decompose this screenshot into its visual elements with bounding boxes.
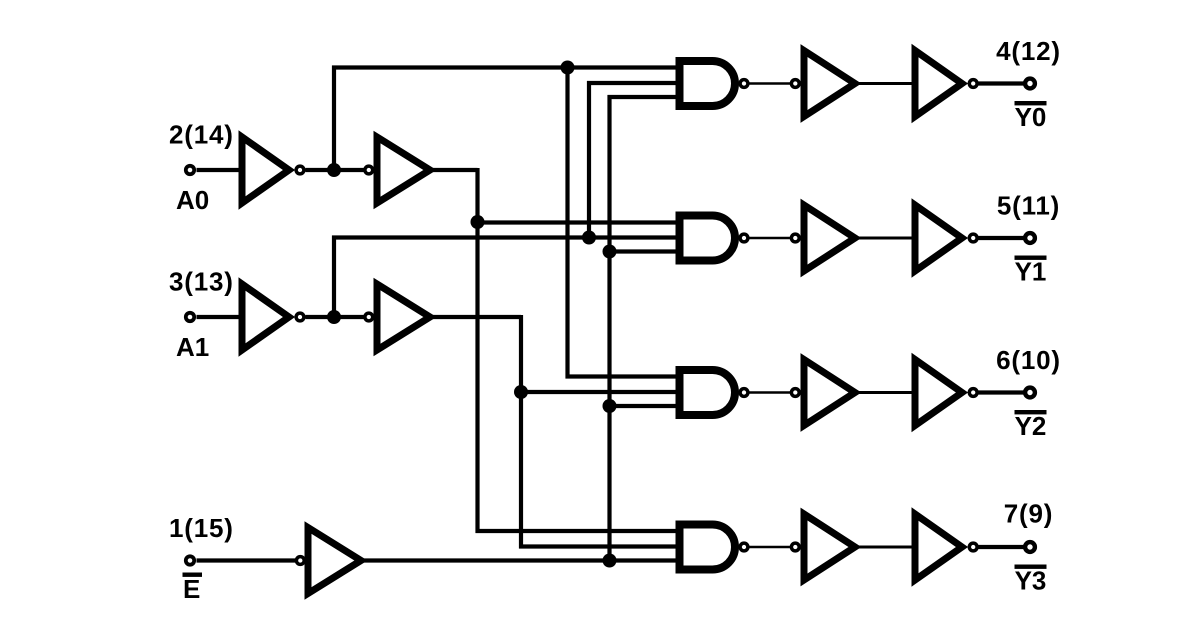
wire /A1 branch vertical — [587, 81, 591, 238]
svg-text:Y2: Y2 — [1015, 411, 1047, 441]
wire NAND2 out — [750, 237, 791, 240]
wire Y2 mid — [858, 391, 912, 394]
inverter U1B — [242, 284, 304, 350]
wire /A1 run to NAND2 — [332, 235, 682, 239]
net label Y1 overline — [1015, 256, 1047, 287]
nand U4C — [680, 370, 748, 415]
output terminal pin 4 — [1025, 79, 1035, 89]
wire E input — [197, 558, 297, 562]
inverter U5A — [791, 51, 855, 117]
inverter U6D — [915, 514, 977, 580]
node E junction at NAND4 — [603, 554, 617, 568]
buffer U3 enable — [296, 528, 361, 594]
svg-text:1(15): 1(15) — [169, 513, 234, 543]
wire A0 to NAND2 — [478, 220, 683, 224]
node /A0 branch junction — [561, 61, 575, 75]
wire A1 to NAND3 — [521, 390, 682, 394]
inverter U1A — [242, 137, 304, 203]
input terminal pin 2 — [186, 166, 194, 174]
inverter U6B — [915, 205, 977, 271]
wire /A0 to NAND3 — [566, 374, 683, 378]
wire E vertical riser — [607, 95, 611, 561]
node A0 junction at NAND2 — [471, 215, 485, 229]
wire E to NAND3 — [610, 404, 683, 408]
svg-text:A0: A0 — [176, 185, 209, 215]
buffer U2A — [365, 137, 430, 203]
net label E overline — [183, 573, 203, 605]
wire E to NAND2 — [610, 249, 683, 253]
wire /A1 stub — [306, 315, 365, 319]
wire Y2 out — [979, 390, 1024, 394]
wire A0 vertical drop — [475, 168, 479, 533]
inverter U6C — [915, 360, 977, 426]
input terminal pin 1 — [186, 556, 194, 564]
net label Y0 overline — [1015, 101, 1047, 132]
wire A1 vertical drop — [519, 315, 523, 549]
wire E to NAND1 — [608, 95, 683, 99]
inverter U6A — [915, 51, 977, 117]
wire /A1 to NAND1 — [587, 81, 682, 85]
wire A1 true horizontal — [433, 315, 521, 319]
output terminal pin 5 — [1025, 233, 1035, 243]
wire NAND1 out — [750, 82, 791, 85]
wire A0 to NAND4 — [476, 529, 683, 533]
inverter U5B — [791, 205, 855, 271]
wire A1 to NAND4 — [519, 544, 682, 548]
wire E main run — [364, 558, 682, 562]
node /A1 junction — [327, 310, 341, 324]
wire Y0 out — [979, 81, 1024, 85]
net label Y2 overline — [1015, 410, 1047, 441]
wire Y3 mid — [858, 546, 912, 549]
wire Y1 mid — [858, 237, 912, 240]
wire Y0 mid — [858, 82, 912, 85]
inverter U5D — [791, 514, 855, 580]
wire NAND4 out — [750, 546, 791, 549]
wire /A0 vertical riser — [332, 66, 336, 171]
node E junction at NAND2 — [603, 245, 617, 259]
input terminal pin 3 — [186, 313, 194, 321]
nand U4B — [680, 216, 748, 261]
node E junction at NAND3 — [603, 399, 617, 413]
svg-text:5(11): 5(11) — [997, 191, 1060, 221]
wire Y1 out — [979, 236, 1024, 240]
wire A0 input — [197, 168, 244, 172]
svg-text:Y3: Y3 — [1015, 566, 1047, 596]
nand U4D — [680, 525, 748, 570]
svg-text:2(14): 2(14) — [169, 120, 234, 150]
nand U4A — [680, 61, 748, 106]
wire Y3 out — [979, 545, 1024, 549]
svg-text:E: E — [183, 574, 200, 604]
svg-text:4(12): 4(12) — [996, 36, 1061, 66]
wire A1 input — [197, 315, 244, 319]
output terminal pin 6 — [1025, 388, 1035, 398]
wire /A0 stub — [306, 168, 365, 172]
svg-text:7(9): 7(9) — [1004, 499, 1053, 529]
wire /A0 top run — [332, 65, 682, 69]
svg-text:A1: A1 — [176, 332, 209, 362]
output terminal pin 7 — [1025, 542, 1035, 552]
node A1 junction at NAND3 — [514, 385, 528, 399]
node /A1 branch junction — [582, 231, 596, 245]
svg-text:3(13): 3(13) — [169, 267, 234, 297]
svg-text:Y1: Y1 — [1015, 257, 1047, 287]
wire /A1 vertical riser — [332, 236, 336, 318]
buffer U2B — [365, 284, 430, 350]
node /A0 junction — [327, 163, 341, 177]
inverter U5C — [791, 360, 855, 426]
wire A0 true horizontal — [433, 168, 478, 172]
wire /A0 branch vertical — [565, 68, 569, 379]
wire NAND3 out — [750, 391, 791, 394]
svg-text:Y0: Y0 — [1015, 102, 1047, 132]
svg-text:6(10): 6(10) — [996, 345, 1061, 375]
net label Y3 overline — [1015, 565, 1047, 596]
